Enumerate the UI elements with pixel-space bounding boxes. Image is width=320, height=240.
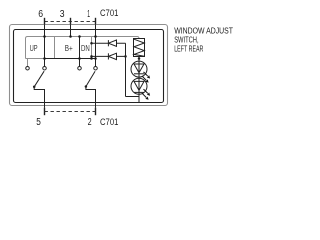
svg-text:5: 5 — [36, 117, 41, 128]
svg-text:2: 2 — [88, 117, 92, 128]
svg-text:DN: DN — [81, 43, 90, 53]
svg-text:C701: C701 — [100, 117, 118, 127]
svg-text:B+: B+ — [65, 43, 73, 53]
svg-text:3: 3 — [60, 9, 65, 20]
svg-text:UP: UP — [30, 43, 38, 53]
svg-text:LEFT REAR: LEFT REAR — [174, 44, 203, 54]
svg-text:6: 6 — [38, 9, 43, 20]
svg-text:1: 1 — [87, 9, 90, 20]
svg-text:C701: C701 — [100, 8, 118, 18]
